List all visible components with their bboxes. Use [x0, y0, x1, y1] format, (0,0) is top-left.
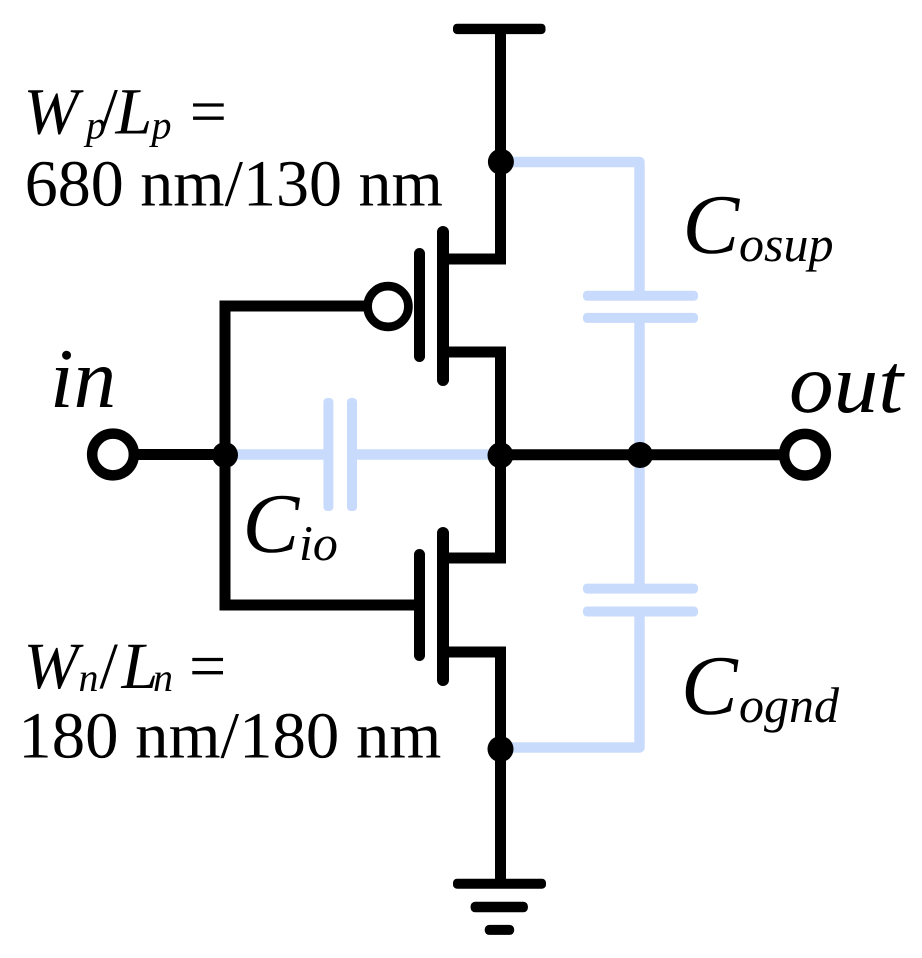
capacitor Cognd top plate — [583, 584, 698, 594]
label Cio — [243, 477, 338, 571]
label Wp/Lp = — [24, 76, 227, 149]
svg-text:io: io — [299, 515, 338, 571]
wire input gate vertical — [220, 301, 231, 611]
svg-text:out: out — [789, 337, 905, 431]
svg-text:=: = — [190, 76, 227, 149]
svg-text:C: C — [681, 639, 739, 733]
label Cognd — [681, 639, 840, 733]
ground symbol bar 2 — [471, 902, 528, 913]
capacitor Cosup top plate — [583, 291, 698, 301]
label Cosup — [683, 178, 834, 272]
wire Cognd to ground node — [501, 615, 640, 748]
transistor M2 NMOS gate bar — [414, 555, 425, 656]
wire output — [501, 449, 786, 460]
node output-capacitor junction — [627, 442, 653, 468]
node supply-Cosup junction — [488, 149, 514, 175]
terminal in port circle — [92, 434, 134, 476]
wire PMOS source stub — [443, 254, 506, 265]
capacitor Cio right plate — [347, 398, 357, 511]
wire in terminal to node — [134, 449, 225, 460]
capacitor Cosup wire from supply node — [502, 162, 640, 292]
wire Cosup to output node — [634, 321, 645, 455]
svg-text:osup: osup — [739, 216, 833, 272]
wire NMOS source stub — [443, 652, 506, 884]
svg-text:180 nm/180 nm: 180 nm/180 nm — [18, 700, 441, 773]
capacitor Cognd bottom plate — [583, 607, 698, 617]
node output junction — [488, 442, 514, 468]
svg-text:W: W — [24, 630, 84, 703]
transistor M1 PMOS gate bubble — [368, 286, 409, 327]
svg-text:C: C — [243, 477, 301, 571]
wire input node to Cio — [225, 449, 325, 460]
wire PMOS drain stub — [443, 352, 506, 455]
supply rail bar VDD — [453, 24, 546, 34]
transistor M1 PMOS channel bar — [437, 232, 449, 380]
wire Cio to output node — [355, 449, 500, 460]
svg-text:n: n — [153, 655, 173, 700]
wire gate to PMOS bubble — [220, 301, 369, 312]
capacitor Cosup bottom plate — [583, 313, 698, 323]
ground symbol bar 3 — [485, 925, 515, 935]
svg-text:680 nm/130 nm: 680 nm/130 nm — [25, 147, 443, 220]
svg-text:=: = — [189, 630, 226, 703]
svg-text:L: L — [115, 76, 153, 149]
node ground junction — [488, 736, 514, 762]
svg-text:/: / — [100, 630, 119, 703]
wire gate to NMOS — [220, 600, 426, 611]
svg-text:W: W — [24, 76, 84, 149]
svg-text:p: p — [149, 103, 172, 148]
capacitor Cio left plate — [323, 398, 333, 511]
node input junction — [212, 442, 238, 468]
svg-text:n: n — [79, 655, 99, 700]
svg-text:ognd: ognd — [739, 677, 840, 733]
terminal out port circle — [784, 434, 826, 476]
ground symbol bar 1 — [453, 879, 546, 889]
transistor M2 NMOS channel bar — [437, 533, 449, 680]
wire VDD to PMOS source — [495, 29, 506, 260]
wire output node to Cognd — [634, 455, 645, 585]
transistor M1 PMOS gate bar — [414, 254, 425, 357]
svg-text:C: C — [683, 178, 741, 272]
wire NMOS drain stub — [443, 455, 506, 563]
label Wn/Ln = — [24, 630, 227, 703]
svg-text:in: in — [50, 332, 116, 426]
